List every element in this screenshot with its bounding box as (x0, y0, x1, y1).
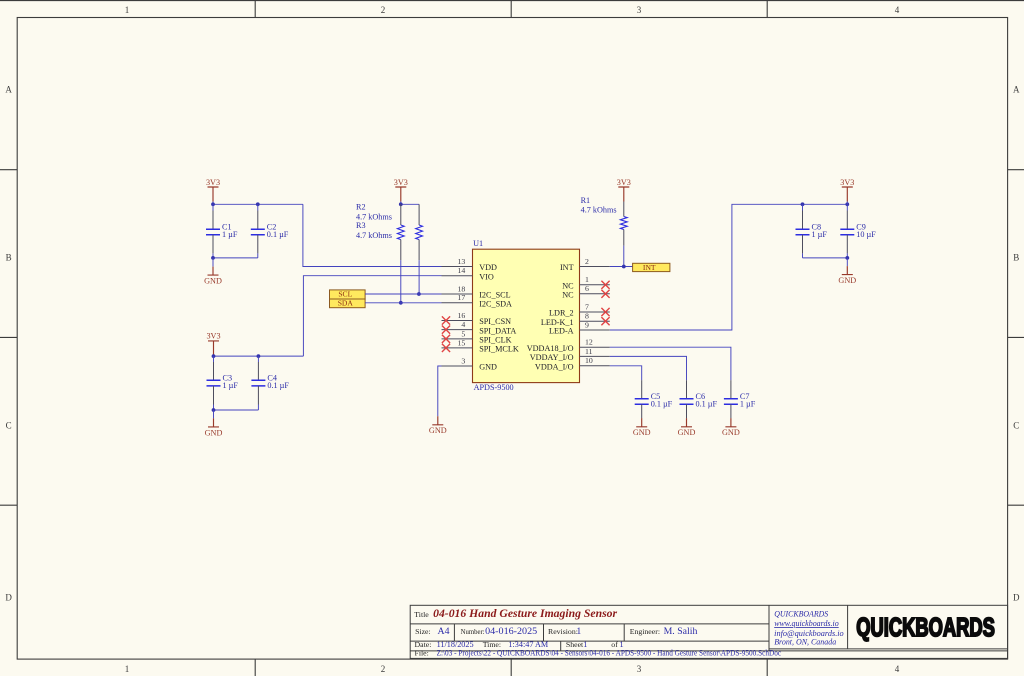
wire U1 GND to ground (438, 366, 442, 416)
wire C4 top lead (257, 356, 259, 362)
junction rail1 / C1 (211, 202, 215, 206)
svg-text:1: 1 (125, 664, 130, 674)
svg-text:Size:: Size: (415, 627, 431, 636)
pin C1 top (212, 211, 214, 230)
wire VDDA_I/O to C5 (610, 366, 642, 380)
pin C4 top (257, 362, 259, 380)
svg-text:B: B (6, 253, 12, 263)
svg-text:Number:: Number: (461, 627, 485, 636)
svg-text:17: 17 (458, 293, 466, 302)
wire rail 1 top (213, 203, 303, 205)
svg-text:Bront, ON, Canada: Bront, ON, Canada (774, 638, 836, 647)
svg-text:1: 1 (585, 275, 589, 284)
svg-text:Z:\03 - Projects\22 - QUICKBOA: Z:\03 - Projects\22 - QUICKBOARDS\04 - S… (437, 648, 782, 657)
svg-text:Revision:: Revision: (548, 627, 578, 636)
pin R2 bottom (400, 240, 402, 261)
svg-text:12: 12 (585, 338, 593, 347)
wire to GND (rail1) (212, 258, 214, 267)
pin C9 bottom (846, 235, 848, 254)
svg-text:11: 11 (585, 347, 593, 356)
pin 2 INT (right) (560, 257, 610, 272)
svg-text:3: 3 (637, 5, 642, 15)
junction rail3 / C9 / 3V3 (845, 202, 849, 206)
wire SCL to U1 pin 18 (365, 293, 441, 295)
svg-text:U1: U1 (473, 239, 483, 248)
capacitor C6 0.1uF (680, 392, 718, 408)
svg-text:LDR_2: LDR_2 (549, 309, 574, 318)
wire VDDAY_I/O to C6 (610, 356, 687, 380)
wire C2 bottom lead (257, 253, 259, 258)
svg-text:8: 8 (585, 312, 589, 321)
svg-text:info@quickboards.io: info@quickboards.io (774, 629, 844, 638)
wire C9 bottom lead (846, 253, 848, 258)
pin 5 SPI_CLK (left) (442, 329, 512, 344)
svg-text:6: 6 (585, 284, 589, 293)
svg-text:04-016-2025: 04-016-2025 (485, 626, 537, 637)
junction rail1 / C2 (256, 202, 260, 206)
svg-text:1 µF: 1 µF (740, 399, 756, 408)
svg-text:16: 16 (458, 311, 466, 320)
wire rail1 to U1 VDD pin 13 (303, 204, 442, 266)
junction rail3 bottom / GND (845, 256, 849, 260)
pin 13 VDD (left) (442, 257, 498, 272)
svg-text:4: 4 (895, 5, 900, 15)
wire R2 to R3 top (401, 203, 419, 205)
wire to GND (rail 3) (846, 258, 848, 266)
power 3V3 (R2/R3) (394, 178, 408, 202)
pin C8 top (802, 211, 804, 230)
wire C8 top lead (802, 204, 804, 210)
svg-text:VDD: VDD (479, 263, 497, 272)
power 3V3 (rail 2) (206, 332, 220, 356)
svg-text:C: C (6, 421, 12, 431)
svg-text:www.quickboards.io: www.quickboards.io (774, 619, 839, 628)
svg-text:R2: R2 (356, 203, 366, 212)
power 3V3 (R1) (617, 178, 631, 202)
power 3V3 (rail 1) (206, 178, 220, 202)
pin C2 bottom (257, 235, 259, 254)
svg-text:VDDAY_I/O: VDDAY_I/O (530, 353, 574, 362)
resistor R3 4.7 kOhms (416, 204, 423, 260)
wire C9 top lead (846, 204, 848, 210)
wire C1 top lead (212, 204, 214, 210)
wire rail 3 bottom (803, 257, 848, 259)
svg-text:4.7 kOhms: 4.7 kOhms (581, 206, 617, 215)
pin C6 top (686, 380, 688, 399)
wire SDA to U1 pin 17 (365, 302, 441, 304)
pin C1 bottom (212, 235, 214, 254)
svg-text:A4: A4 (438, 626, 450, 637)
svg-text:NC: NC (562, 291, 574, 300)
pin C2 top (257, 211, 259, 230)
svg-text:3V3: 3V3 (206, 178, 220, 187)
svg-text:GND: GND (678, 428, 696, 437)
capacitor C2 0.1uF (251, 223, 289, 239)
junction rail3 / C8 (801, 202, 805, 206)
resistor R1 4.7 kOhms (620, 202, 627, 246)
svg-text:LED-A: LED-A (549, 327, 574, 336)
pin C5 top (641, 380, 643, 399)
pin 12 VDDA18_I/O (right) (527, 338, 610, 353)
pin R1 bottom (623, 230, 625, 246)
svg-text:13: 13 (458, 257, 466, 266)
wire R1 to INT line (623, 246, 625, 267)
svg-text:D: D (1013, 593, 1020, 603)
capacitor C1 1uF (206, 223, 238, 239)
pin C9 top (846, 211, 848, 230)
svg-text:2: 2 (381, 664, 386, 674)
pin R2 top (400, 204, 402, 225)
wire C3 top lead (213, 356, 215, 362)
svg-text:SPI_CSN: SPI_CSN (479, 317, 511, 326)
svg-text:0.1 µF: 0.1 µF (696, 399, 718, 408)
svg-text:3V3: 3V3 (394, 178, 408, 187)
svg-text:GND: GND (204, 277, 222, 286)
ground GND (rail 3) (838, 266, 856, 285)
pin C3 bottom (213, 386, 215, 405)
svg-text:GND: GND (838, 276, 856, 285)
pin R3 top (418, 204, 420, 225)
capacitor C5 0.1uF (635, 392, 673, 408)
svg-text:QUICKBOARDS: QUICKBOARDS (774, 610, 828, 619)
svg-text:GND: GND (633, 428, 651, 437)
wire rail 2 top (214, 355, 304, 357)
wire VDDA18_I/O to C7 (610, 347, 731, 380)
svg-text:10 µF: 10 µF (856, 230, 876, 239)
svg-text:9: 9 (585, 320, 589, 329)
wire rail 1 bottom (213, 257, 258, 259)
svg-text:A: A (1013, 85, 1020, 95)
capacitor C3 1uF (207, 374, 239, 390)
svg-text:Engineer:: Engineer: (630, 627, 660, 636)
svg-text:SDA: SDA (338, 299, 354, 308)
junction rail2 / C4 (257, 354, 261, 358)
svg-text:M. Salih: M. Salih (664, 626, 698, 637)
wire C2 top lead (257, 204, 259, 210)
svg-text:APDS-9500: APDS-9500 (474, 383, 514, 392)
capacitor C4 0.1uF (251, 374, 289, 390)
ground GND (rail 1) (204, 267, 222, 286)
svg-text:GND: GND (722, 428, 740, 437)
ground GND (C5) (633, 418, 651, 437)
pin C3 top (213, 362, 215, 380)
pin 3 GND (left) (442, 356, 498, 371)
junction rail2 bottom / GND (212, 408, 216, 412)
op-amp U1 APDS-9500 body (473, 249, 580, 382)
svg-text:C: C (1013, 421, 1019, 431)
svg-text:INT: INT (560, 263, 574, 272)
svg-text:1 µF: 1 µF (812, 230, 828, 239)
svg-text:4: 4 (461, 320, 465, 329)
svg-text:SCL: SCL (338, 289, 352, 298)
resistor R2 4.7 kOhms (397, 204, 404, 260)
wire C3 bottom lead (213, 405, 215, 411)
svg-text:LED-K_1: LED-K_1 (541, 318, 574, 327)
svg-text:QUICKBOARDS: QUICKBOARDS (856, 613, 995, 642)
ground GND (C6) (678, 418, 696, 437)
pin R1 top (623, 202, 625, 217)
capacitor C9 10uF (840, 223, 876, 239)
svg-text:5: 5 (461, 329, 465, 338)
svg-text:GND: GND (429, 426, 447, 435)
pin 10 VDDA_I/O (right) (535, 356, 610, 371)
svg-text:2: 2 (585, 257, 589, 266)
svg-text:1 µF: 1 µF (223, 381, 239, 390)
svg-text:10: 10 (585, 356, 593, 365)
pin 8 LED-K_1 (right) (541, 312, 610, 327)
svg-text:SPI_CLK: SPI_CLK (479, 336, 511, 345)
wire U1 INT to port (610, 266, 633, 268)
pin C7 top (730, 380, 732, 399)
svg-text:2: 2 (381, 5, 386, 15)
svg-text:A: A (5, 85, 12, 95)
junction R1 / INT (622, 265, 626, 269)
wire rail2 to U1 VIO pin 14 (303, 276, 441, 356)
svg-text:18: 18 (458, 284, 466, 293)
pin C5 bottom (641, 404, 643, 418)
svg-text:GND: GND (479, 363, 497, 372)
wire rail 2 bottom (214, 409, 259, 411)
svg-text:VDDA18_I/O: VDDA18_I/O (527, 344, 574, 353)
pin 9 LED-A (right) (549, 320, 610, 335)
pin 15 SPI_MCLK (left) (442, 338, 519, 353)
svg-text:B: B (1013, 253, 1019, 263)
wire to GND (rail 2) (213, 410, 215, 418)
pin C7 bottom (730, 404, 732, 418)
svg-text:3V3: 3V3 (206, 332, 220, 341)
capacitor C7 1uF (724, 392, 756, 408)
svg-text:0.1 µF: 0.1 µF (651, 399, 673, 408)
wire 3V3 stem to R2 (400, 202, 402, 205)
pin 1 NC (right) (562, 275, 610, 290)
svg-text:NC: NC (562, 282, 574, 291)
svg-text:4: 4 (895, 664, 900, 674)
svg-text:04-016 Hand Gesture Imaging Se: 04-016 Hand Gesture Imaging Sensor (433, 606, 617, 620)
pin R3 bottom (418, 240, 420, 261)
pin 4 SPI_DATA (left) (442, 320, 517, 335)
svg-text:0.1 µF: 0.1 µF (267, 381, 289, 390)
junction R2 / SDA (399, 301, 403, 305)
svg-text:Title: Title (414, 610, 429, 619)
title block (410, 605, 1007, 658)
pin 7 LDR_2 (right) (549, 302, 610, 317)
pin 18 I2C_SCL (left) (442, 284, 511, 299)
junction R3 / SCL (417, 292, 421, 296)
svg-text:1: 1 (125, 5, 130, 15)
svg-text:14: 14 (458, 266, 466, 275)
svg-text:4.7 kOhms: 4.7 kOhms (356, 231, 392, 240)
wire 3V3 stem to rail 1 (212, 202, 214, 205)
svg-text:15: 15 (458, 338, 466, 347)
junction rail1 bottom / GND (211, 256, 215, 260)
svg-text:1 µF: 1 µF (222, 230, 238, 239)
svg-text:3: 3 (461, 356, 465, 365)
pin 16 SPI_CSN (left) (442, 311, 512, 326)
ground GND (U1) (429, 416, 447, 435)
wire C1 bottom lead (212, 253, 214, 258)
pin 17 I2C_SDA (left) (442, 293, 513, 308)
wire 3V3 stem to rail 2 (213, 354, 215, 357)
svg-text:I2C_SCL: I2C_SCL (479, 291, 510, 300)
svg-text:I2C_SDA: I2C_SDA (479, 300, 512, 309)
svg-text:VIO: VIO (479, 272, 494, 281)
pin 6 NC (right) (562, 284, 610, 299)
pin 14 VIO (left) (442, 266, 494, 281)
svg-text:SPI_DATA: SPI_DATA (479, 326, 516, 335)
svg-text:D: D (5, 593, 12, 603)
svg-text:R1: R1 (581, 196, 591, 205)
wire C8 bottom lead (802, 253, 804, 258)
junction 3V3 / R2 / R3 (399, 202, 403, 206)
pin C8 bottom (802, 235, 804, 254)
wire R3 to SCL line (418, 260, 420, 294)
pin C4 bottom (257, 386, 259, 405)
junction rail2 / C3 (212, 354, 216, 358)
ground GND (C7) (722, 418, 740, 437)
svg-text:3V3: 3V3 (840, 178, 854, 187)
port INT (633, 263, 670, 272)
pin C6 bottom (686, 404, 688, 418)
svg-text:INT: INT (643, 263, 656, 272)
svg-text:3: 3 (637, 664, 642, 674)
ground GND (rail 2) (205, 418, 223, 437)
svg-text:R3: R3 (356, 221, 366, 230)
wire LED-A to 3V3 rail 3 (610, 204, 848, 330)
port SDA (330, 299, 366, 308)
port SCL (330, 289, 366, 299)
svg-text:VDDA_I/O: VDDA_I/O (535, 363, 574, 372)
wire 3V3 stem rail 3 (846, 202, 848, 205)
power 3V3 (rail 3) (840, 178, 854, 202)
svg-text:0.1 µF: 0.1 µF (267, 230, 289, 239)
svg-text:1: 1 (576, 626, 581, 637)
svg-text:SPI_MCLK: SPI_MCLK (479, 345, 519, 354)
wire R2 to SDA line (400, 260, 402, 303)
svg-text:GND: GND (205, 428, 223, 437)
wire C4 bottom lead (257, 405, 259, 411)
svg-text:3V3: 3V3 (617, 178, 631, 187)
capacitor C8 1uF (796, 223, 828, 239)
pin 11 VDDAY_I/O (right) (530, 347, 610, 362)
svg-text:7: 7 (585, 302, 589, 311)
svg-text:File:: File: (415, 648, 429, 657)
